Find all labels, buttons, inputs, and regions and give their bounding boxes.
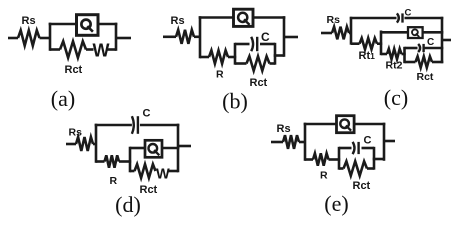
circuit b: top branch wire left — [199, 16, 234, 19]
circuit e: resistor Rs — [277, 123, 300, 149]
circuit b: inner box output wire — [274, 54, 284, 57]
circuit b: resistor R — [209, 50, 228, 80]
circuit e: branch Rct wire left — [339, 167, 344, 170]
circuit b: wire Rct to inner right — [270, 62, 276, 65]
circuit b: wire R to inner box — [228, 56, 236, 59]
circuit e: input wire — [271, 141, 283, 144]
circuit d: branch Rct wire left — [130, 170, 135, 173]
circuit a: wire W to right vertical — [108, 48, 117, 51]
circuit c: CPE Q3 box — [408, 27, 423, 38]
svg-text:C: C — [405, 7, 412, 18]
circuit d: bottom branch wire left — [96, 160, 105, 163]
circuit b: output wire — [284, 36, 298, 39]
circuit d: branch Q wire left — [130, 147, 146, 150]
circuit b: input wire — [163, 35, 176, 38]
circuit b: inner Rct branch wire — [235, 62, 247, 65]
circuit e: resistor Rct — [344, 161, 368, 175]
circuit d: resistor R — [105, 155, 120, 187]
circuit b: top branch wire right — [252, 16, 285, 19]
svg-text:(c): (c) — [384, 85, 408, 110]
svg-text:Rt1: Rt1 — [359, 50, 376, 62]
circuit c: inner box 1 left vertical — [380, 31, 383, 56]
circuit e: top branch wire left — [304, 123, 337, 126]
circuit a: top branch wire left — [49, 23, 77, 26]
circuit c: branch Rt1 wire left — [351, 42, 360, 45]
circuit e: inner cap branch wire right — [362, 147, 375, 150]
svg-text:W: W — [93, 41, 110, 61]
circuit b: capacitor C — [251, 30, 270, 51]
circuit e: inner box output wire — [373, 158, 384, 161]
circuit c: resistor Rs — [327, 14, 350, 39]
svg-text:Rct: Rct — [250, 77, 268, 89]
circuit d: wire Rs to node — [93, 143, 96, 146]
circuit c: branch Rt2 wire left — [381, 53, 387, 56]
svg-text:(d): (d) — [115, 192, 141, 217]
circuit e: inner box left vertical — [338, 147, 341, 170]
svg-text:Rs: Rs — [22, 15, 36, 27]
svg-text:Rs: Rs — [69, 127, 83, 139]
circuit d: outer top branch wire left — [95, 124, 132, 127]
circuit e: bottom branch wire left — [305, 158, 313, 161]
circuit e: top branch wire right — [354, 123, 385, 126]
circuit b: inner box left vertical — [234, 43, 237, 65]
svg-text:R: R — [320, 170, 328, 182]
circuit e: inner cap branch wire left — [339, 147, 352, 150]
svg-text:(e): (e) — [324, 191, 348, 216]
circuit d: left vertical wire — [95, 124, 98, 163]
circuit b: right vertical wire — [283, 16, 286, 57]
svg-text:(a): (a) — [51, 86, 75, 111]
circuit a: left vertical wire — [49, 23, 52, 51]
circuit b: left vertical wire — [199, 16, 202, 58]
circuit e: wire Rs to node — [299, 141, 305, 144]
circuit d: wire W to right vertical — [169, 170, 179, 173]
svg-text:Rct: Rct — [140, 184, 158, 196]
circuit e: wire Rct to inner right — [367, 167, 374, 170]
circuit b: resistor Rs — [171, 15, 195, 44]
circuit e: left vertical wire — [304, 123, 307, 161]
circuit c: wire Rct to right vertical — [432, 61, 443, 64]
circuit e: capacitor C — [353, 135, 372, 155]
svg-text:Rs: Rs — [171, 15, 185, 27]
circuit b: inner cap branch wire left — [235, 43, 250, 46]
circuit e: inner box right vertical — [373, 147, 376, 170]
svg-text:Rs: Rs — [277, 123, 291, 135]
circuit c: branch Rct wire left — [405, 61, 416, 64]
circuit e: right vertical wire — [383, 123, 386, 161]
circuit c: input wire — [321, 32, 332, 35]
circuit d: input wire — [66, 143, 76, 146]
circuit d: right vertical wire — [177, 124, 180, 173]
circuit a: bottom branch wire left — [50, 48, 60, 51]
circuit c: branch Q wire left — [381, 31, 409, 34]
circuit e: output wire — [384, 140, 395, 143]
circuit c: output wire — [442, 39, 451, 42]
circuit b: wire Rs to node — [194, 35, 200, 38]
circuit c: branch Q wire right — [423, 31, 444, 34]
circuit a: wire Rct to W — [86, 48, 94, 51]
svg-text:Rct: Rct — [353, 180, 371, 192]
circuit c: wire Rt2 to inner box 2 — [402, 53, 406, 56]
circuit d: inner box left vertical — [129, 147, 132, 173]
circuit e: resistor R — [313, 153, 329, 181]
svg-text:Rt2: Rt2 — [386, 60, 403, 72]
svg-text:R: R — [110, 175, 118, 187]
circuit e: wire R to inner box — [329, 158, 341, 161]
circuit c: wire Rt1 to inner box — [377, 42, 382, 45]
circuit b: inner cap branch wire right — [260, 43, 275, 46]
svg-text:R: R — [216, 69, 224, 81]
circuit d: capacitor C — [132, 108, 151, 134]
svg-text:W: W — [156, 167, 170, 183]
circuit a: resistor Rs — [18, 15, 40, 46]
circuit d: resistor Rs — [69, 127, 94, 152]
circuit c: outer top branch wire left — [350, 17, 397, 20]
circuit a: output wire — [116, 37, 131, 40]
circuit c: capacitor C inner — [418, 37, 434, 52]
svg-text:Rct: Rct — [65, 64, 83, 76]
circuit a: wire Rs to node — [40, 37, 51, 40]
circuit a: top branch wire right — [97, 23, 117, 26]
circuit d: CPE Q4 box — [145, 140, 162, 157]
circuit c: resistor Rt2 — [387, 49, 402, 59]
circuit a: input wire — [8, 37, 18, 40]
circuit c: left vertical wire — [350, 17, 353, 45]
svg-text:(b): (b) — [222, 89, 248, 114]
circuit d: output wire — [178, 145, 191, 148]
circuit e: CPE Q5 box — [337, 116, 355, 133]
circuit c: inner box 2 left vertical — [403, 47, 406, 63]
circuit a: right vertical wire — [115, 23, 118, 51]
svg-text:Rct: Rct — [417, 71, 434, 83]
svg-text:C: C — [427, 37, 434, 48]
circuit c: resistor Rct — [416, 56, 433, 67]
circuit d: branch Q wire right — [162, 147, 179, 150]
circuit c: right vertical wire — [441, 17, 444, 63]
svg-text:C: C — [143, 108, 151, 120]
circuit b: bottom branch wire left — [200, 56, 209, 59]
circuit c: wire Rs to node — [349, 32, 351, 35]
circuit c: inner cap branch wire right — [424, 47, 444, 50]
svg-text:C: C — [261, 30, 270, 44]
circuit c: resistor Rt1 — [360, 38, 378, 49]
svg-text:C: C — [364, 135, 372, 147]
circuit b: resistor Rct — [247, 56, 270, 70]
circuit c: capacitor C top — [397, 7, 412, 22]
circuit d: wire R to inner box — [119, 160, 131, 163]
circuit c: inner cap branch wire left — [405, 47, 418, 50]
circuit d: resistor Rct — [135, 164, 156, 178]
circuit b: CPE Q2 box — [234, 9, 254, 26]
circuit b: inner box right vertical — [274, 43, 277, 65]
circuit a: CPE Q1 box — [77, 15, 99, 36]
circuit c: outer top branch wire right — [405, 17, 444, 20]
circuit a: resistor Rct — [60, 41, 86, 57]
svg-text:Rs: Rs — [327, 14, 341, 26]
circuit d: outer top branch wire right — [140, 124, 179, 127]
